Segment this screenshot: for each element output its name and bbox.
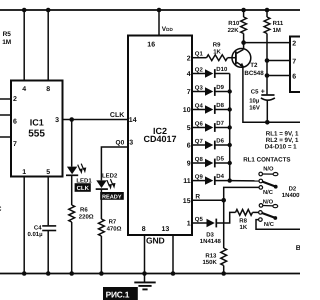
node junction top rail x=243.6: [241, 8, 246, 13]
node pin 6 / output Q7: [187, 138, 204, 150]
resistor R7 470ohm: [99, 219, 105, 236]
svg-text:555: 555: [28, 129, 45, 140]
svg-text:Q8: Q8: [195, 156, 204, 163]
svg-text:1: 1: [22, 169, 26, 176]
diode D6: [205, 138, 225, 150]
node junction top rail x=48.2: [46, 8, 51, 13]
svg-text:13: 13: [162, 226, 170, 233]
resistor R11 1M: [266, 10, 268, 17]
wire IC2 pin 5 to diode D7: [192, 127, 205, 129]
node junction diode bus y=145.0: [228, 143, 232, 147]
wire switch2 N/C to right edge (battery B1): [256, 220, 300, 230]
wire bottom ground rail: [0, 273, 300, 275]
wire IC2 pin8 to ground rail: [144, 235, 146, 274]
wire IC1 pin1 to ground rail: [23, 177, 25, 274]
svg-text:C: C: [0, 206, 1, 213]
svg-text:D4: D4: [216, 173, 224, 180]
node junction diode bus y=180.6: [228, 178, 232, 182]
wire R6 to ground rail: [71, 222, 73, 274]
svg-text:1M: 1M: [2, 39, 11, 46]
svg-text:5: 5: [187, 125, 191, 132]
svg-text:VDD: VDD: [162, 26, 174, 33]
svg-text:2: 2: [292, 41, 296, 48]
svg-text:6: 6: [13, 119, 17, 126]
node pin 4 / output Q2: [187, 66, 204, 78]
wire R9 to T2 base: [228, 57, 236, 59]
label READY badge: [100, 192, 124, 200]
svg-text:Q5: Q5: [195, 216, 204, 223]
label RL1/RL2/D4-D10 values: [265, 130, 299, 150]
svg-text:2: 2: [187, 55, 191, 62]
node pin 15 / reset R: [183, 194, 201, 205]
svg-text:3: 3: [55, 117, 59, 124]
diode D5: [205, 156, 225, 168]
svg-text:D7: D7: [216, 120, 224, 127]
svg-text:N/O: N/O: [263, 166, 274, 173]
wire IC2 pin 7 to diode D9: [192, 91, 205, 93]
node junction R11/IC3 pin7: [265, 58, 270, 63]
svg-text:D5: D5: [216, 156, 224, 163]
diode D7: [205, 120, 225, 132]
svg-text:C5: C5: [251, 88, 259, 95]
wire diode D6 cathode to bus: [215, 144, 230, 146]
node pin 9 / output Q8: [187, 156, 204, 168]
svg-text:6: 6: [292, 74, 296, 81]
svg-text:1K: 1K: [213, 49, 221, 56]
label CLK badge: [75, 183, 91, 192]
wire IC1 pin4 to top rail: [23, 10, 25, 81]
wire node Q0 : IC2 pin3 left then down: [101, 147, 128, 180]
svg-text:11: 11: [183, 178, 191, 185]
wire IC2 pin 10 to diode D8: [192, 109, 205, 111]
wire tap to IC3 pin6: [267, 75, 290, 77]
svg-text:1N4148: 1N4148: [200, 238, 222, 245]
node junction pin13/ground rail: [171, 271, 176, 276]
diode D8: [205, 102, 225, 114]
svg-text:BC548: BC548: [244, 70, 264, 77]
wire IC2 pin13 to ground rail: [172, 235, 174, 274]
ground symbol: [134, 274, 155, 290]
svg-text:R9: R9: [213, 42, 221, 49]
node junction top rail x=24.2: [22, 8, 27, 13]
node junction C4/ground rail: [46, 271, 51, 276]
svg-text:Q1: Q1: [195, 51, 204, 58]
svg-text:D8: D8: [216, 102, 224, 109]
resistor R5 (off-canvas, labels only): [2, 31, 11, 46]
svg-text:Q6: Q6: [195, 120, 204, 127]
svg-text:R8: R8: [239, 217, 247, 224]
svg-text:4: 4: [22, 86, 26, 93]
wire R7 to ground rail: [100, 236, 102, 274]
node pin 7 / output Q3: [187, 84, 204, 96]
wire IC2 pin16 to top rail: [158, 10, 160, 36]
svg-text:C4: C4: [34, 225, 42, 232]
svg-text:РИС.1: РИС.1: [106, 289, 130, 299]
svg-text:Q9: Q9: [195, 173, 204, 180]
svg-text:Q2: Q2: [195, 66, 204, 73]
resistor R6 220ohm: [69, 205, 75, 222]
node junction R7/ground rail: [99, 271, 104, 276]
figure badge: [103, 287, 138, 300]
switch RL1 contact set A: [259, 166, 278, 196]
svg-text:2: 2: [13, 96, 17, 103]
svg-text:R6: R6: [80, 206, 88, 213]
node pin 10 / output Q4: [183, 102, 204, 114]
resistor R9 1K: [207, 55, 228, 61]
svg-text:16: 16: [147, 42, 155, 49]
node pin 2 / output Q1: [187, 51, 204, 63]
diode D2 1N4007 (off-canvas, labels only): [282, 186, 304, 199]
node junction diode bus y=163.0: [228, 161, 232, 165]
svg-text:D9: D9: [216, 84, 224, 91]
node junction top rail x=159: [157, 8, 162, 13]
wire LED1 to R6: [71, 175, 73, 205]
wire diode D7 cathode to bus: [215, 127, 230, 129]
counter IC2 CD4017 box: [128, 36, 192, 236]
wire diode D4 cathode to bus: [215, 180, 230, 182]
LED LED2 (READY indicator): [96, 173, 118, 190]
wire IC1 pin2 stub left: [0, 98, 11, 100]
resistor R10 22K: [243, 10, 245, 17]
wire IC1 pin5 down to C4: [47, 177, 49, 226]
node junction reset net: [221, 198, 226, 203]
label fragment at left edge: [0, 206, 1, 213]
node Q0 label: [116, 139, 125, 146]
svg-text:CLK: CLK: [110, 112, 124, 119]
svg-text:IC1: IC1: [30, 118, 44, 128]
capacitor C5 10u 16V (polarized): [249, 88, 275, 122]
svg-text:6: 6: [187, 143, 191, 150]
svg-text:14: 14: [129, 117, 137, 124]
label GND: [146, 236, 165, 246]
svg-text:D10: D10: [216, 66, 228, 73]
node junction R6/ground rail: [69, 271, 74, 276]
svg-text:8: 8: [46, 86, 50, 93]
wire collector node to IC3 pin2: [244, 42, 290, 44]
svg-text:N/O: N/O: [263, 199, 274, 206]
svg-text:R7: R7: [109, 218, 117, 225]
svg-text:N/C: N/C: [264, 221, 275, 228]
diode D9: [205, 84, 225, 96]
svg-text:1M: 1M: [273, 27, 281, 34]
LED LED1 (CLK indicator): [66, 164, 92, 185]
wire IC2 pin2 (Q1) to R9: [192, 57, 207, 59]
node junction R11/IC3 pin6: [265, 73, 270, 78]
wire diode D8 cathode to bus: [215, 109, 230, 111]
svg-text:Q7: Q7: [195, 138, 204, 145]
svg-text:GND: GND: [146, 236, 165, 246]
wire IC1 pin8 to top rail: [47, 10, 49, 81]
node junction top rail x=267: [265, 8, 270, 13]
wire reset net up to switch1 N/C: [224, 187, 259, 200]
svg-text:470Ω: 470Ω: [107, 225, 122, 232]
node pin 11 / output Q9: [183, 173, 203, 185]
node junction diode bus y=109.5: [228, 107, 232, 111]
svg-text:CD4017: CD4017: [143, 134, 176, 144]
wire IC1 pin6 stub left: [0, 114, 11, 116]
node junction diode bus y=127.5: [228, 125, 232, 129]
svg-text:CLK: CLK: [77, 185, 90, 192]
node CLK label: [110, 112, 124, 119]
node junction R13/ground rail: [221, 271, 226, 276]
wire diode D9 cathode to bus: [215, 91, 230, 93]
svg-text:1: 1: [187, 221, 191, 228]
svg-text:22K: 22K: [228, 27, 240, 34]
wire R11 down to C5 (through pin7/pin6 taps): [266, 34, 268, 95]
svg-text:8: 8: [142, 226, 146, 233]
node junction pin1/ground rail: [22, 271, 27, 276]
wire CLK branch down to LED1: [71, 120, 73, 167]
wire IC2 pin 4 to diode D10: [192, 73, 205, 75]
svg-text:D4-D10 = 1: D4-D10 = 1: [265, 143, 297, 150]
wire IC2 pin 6 to diode D6: [192, 144, 205, 146]
wire C4 to ground rail: [47, 231, 49, 274]
node pin 5 / output Q6: [187, 120, 204, 132]
node junction emitter wire / C5: [265, 120, 270, 125]
svg-text:Q4: Q4: [195, 102, 204, 109]
power VDD label: [162, 26, 174, 33]
wire diode D5 cathode to bus: [215, 162, 230, 164]
node junction collector / IC3 pin2: [241, 40, 246, 45]
svg-text:1N4007: 1N4007: [282, 192, 300, 199]
wire diode D10 cathode to bus: [215, 73, 230, 75]
wire D3 cathode to R8 (crosses reset net): [216, 212, 235, 223]
svg-text:16V: 16V: [249, 105, 260, 112]
wire T2 emitter down and right: [243, 67, 300, 123]
node junction pin8/ground rail: [142, 271, 147, 276]
wire LED2 to R7: [100, 189, 102, 219]
wire D4 row to switch1 common: [230, 180, 259, 182]
capacitor C4 0.01u: [27, 225, 56, 238]
node junction diode bus y=91.5: [228, 89, 232, 93]
svg-text:7: 7: [187, 89, 191, 96]
transistor Q T2 BC548: [232, 49, 264, 77]
svg-text:9: 9: [187, 161, 191, 168]
label RL1 CONTACTS: [243, 157, 290, 164]
wire IC1 pin7 stub left: [0, 136, 11, 138]
wire R13 to ground rail: [223, 266, 225, 274]
svg-text:R10: R10: [228, 20, 240, 27]
svg-text:150K: 150K: [202, 259, 217, 266]
battery B1 (off-canvas, label only): [296, 245, 301, 252]
svg-text:N/C: N/C: [263, 189, 274, 196]
svg-text:D6: D6: [216, 138, 224, 145]
svg-text:5: 5: [46, 169, 50, 176]
wire top supply rail: [0, 9, 300, 11]
wire R8 to switch2 common: [253, 211, 259, 213]
svg-text:0.01µ: 0.01µ: [27, 231, 43, 238]
svg-text:Q3: Q3: [195, 84, 204, 91]
op-amp U3 / timer IC3 box (cut at right edge): [290, 37, 303, 93]
resistor R13 150K: [221, 248, 227, 266]
svg-text:R13: R13: [205, 252, 217, 259]
op-amp U1 / timer IC1 555 box: [11, 81, 63, 177]
svg-text:1K: 1K: [240, 224, 248, 231]
wire node CLK : IC1 pin3 to IC2 pin14: [63, 119, 129, 121]
svg-text:10: 10: [183, 107, 191, 114]
wire IC2 pin1 to diode D3: [192, 222, 207, 224]
svg-text:B: B: [296, 245, 300, 252]
svg-text:READY: READY: [102, 194, 122, 200]
wire reset net down to R13: [223, 200, 225, 248]
wire IC2 pin15 reset net: [192, 199, 224, 201]
wire R10 to T2 collector node: [243, 34, 245, 50]
svg-text:R5: R5: [3, 31, 12, 38]
switch RL1 contact set B: [259, 199, 278, 229]
svg-text:4: 4: [187, 71, 191, 78]
wire diode cathode bus vertical: [229, 74, 231, 181]
svg-text:10µ: 10µ: [249, 97, 260, 104]
svg-text:+: +: [261, 89, 265, 96]
svg-text:15: 15: [183, 198, 191, 205]
svg-text:Q0: Q0: [116, 139, 125, 146]
svg-text:T2: T2: [250, 62, 258, 69]
wire tap to IC3 pin7: [267, 60, 290, 62]
svg-text:7: 7: [13, 141, 17, 148]
diode D4: [205, 173, 225, 185]
node pin 1 / output Q5: [187, 216, 204, 228]
svg-text:RL1 CONTACTS: RL1 CONTACTS: [243, 157, 290, 164]
svg-text:R11: R11: [273, 20, 284, 27]
svg-text:220Ω: 220Ω: [79, 214, 94, 221]
svg-text:D3: D3: [206, 231, 214, 238]
wire IC2 pin 9 to diode D5: [192, 162, 205, 164]
svg-text:7: 7: [292, 59, 296, 66]
node junction CLK/LED1 branch: [69, 117, 74, 122]
wire IC2 pin 11 to diode D4: [192, 180, 205, 182]
diode D10: [205, 66, 228, 78]
svg-text:D2: D2: [289, 186, 297, 193]
svg-text:LED2: LED2: [102, 173, 118, 180]
diode D3 1N4148: [200, 219, 222, 246]
svg-text:3: 3: [129, 140, 133, 147]
resistor R8 1K: [236, 210, 253, 216]
